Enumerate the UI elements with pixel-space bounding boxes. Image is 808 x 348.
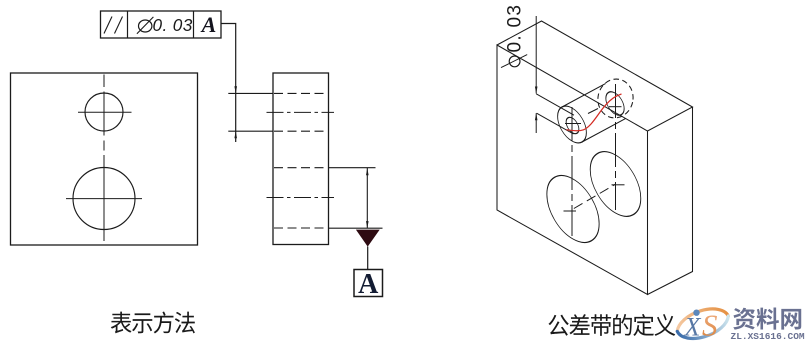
side view rectangle [273,73,329,245]
3D block top face [497,21,693,131]
parallelism symbol // [104,17,112,34]
svg-text:ZL.XS1616.COM: ZL.XS1616.COM [731,331,805,342]
small hole hidden line bottom [274,130,328,132]
watermark text zi liao wang [733,308,755,330]
dimension extension lower [535,113,537,133]
dimension tangent line upper [536,94,574,115]
watermark swoosh blue arc [677,313,732,345]
datum triangle [356,230,380,247]
cap centre dash [565,123,581,125]
hole axis connector [573,184,616,209]
datum letter box [354,270,383,297]
left hole centre dash [564,210,577,212]
small hole horizontal centre line [78,111,132,113]
large hole front ellipse [547,164,599,254]
cylinder axis dash [588,109,598,114]
back cap centre dash [609,106,622,108]
tolerance zone front cap [558,100,587,149]
svg-text:0. 03: 0. 03 [505,4,526,53]
datum dimension line [366,168,368,228]
small hole centre line [267,111,335,113]
feature-control frame box [101,11,222,38]
actual axis (red) [567,94,622,131]
svg-text:A: A [200,12,217,37]
datum extension line top [329,167,376,169]
hole back cap ellipse [606,88,624,119]
caption: biao shi fang fa [111,312,132,334]
svg-text:A: A [358,269,379,300]
tolerance zone extension line bottom [228,130,273,132]
small hole circle [85,93,123,131]
tolerance value [139,20,152,32]
large hole back ellipse [590,141,641,228]
3D block right face [648,107,693,295]
datum stem [367,247,369,270]
hole front cap (inner ellipse) [566,115,579,137]
dimension text phi 0.03 rotated [509,56,520,67]
zone cylinder bottom tangent [582,119,626,142]
large hole circle [73,168,135,230]
tolerance zone extension line top [228,92,273,94]
right vertical centre line [615,84,617,210]
watermark X dot [693,310,699,316]
svg-text:0. 03: 0. 03 [153,15,193,35]
tolerance zone back cap (dashed) [594,76,636,121]
datum extension line bottom [329,227,383,229]
large hole horizontal centre line [66,198,142,200]
dimension extension upper [535,16,537,94]
vertical centre line [103,75,105,246]
caption: gong cha dai de ding yi [548,315,568,336]
svg-text:S: S [702,308,718,343]
right hole centre dash [612,184,625,186]
large hole hidden line top [274,167,328,169]
small hole hidden line top [274,92,328,94]
front view square [11,73,198,245]
large hole centre line [267,197,335,199]
svg-text:X: X [684,313,702,342]
leader line from frame [221,24,236,143]
zone cylinder top tangent [562,84,606,107]
dimension tangent line lower [537,113,574,134]
left vertical centre line [571,107,573,236]
3D block front face [497,45,648,295]
watermark swoosh orange arc [673,302,728,334]
large hole hidden line bottom [274,227,328,229]
